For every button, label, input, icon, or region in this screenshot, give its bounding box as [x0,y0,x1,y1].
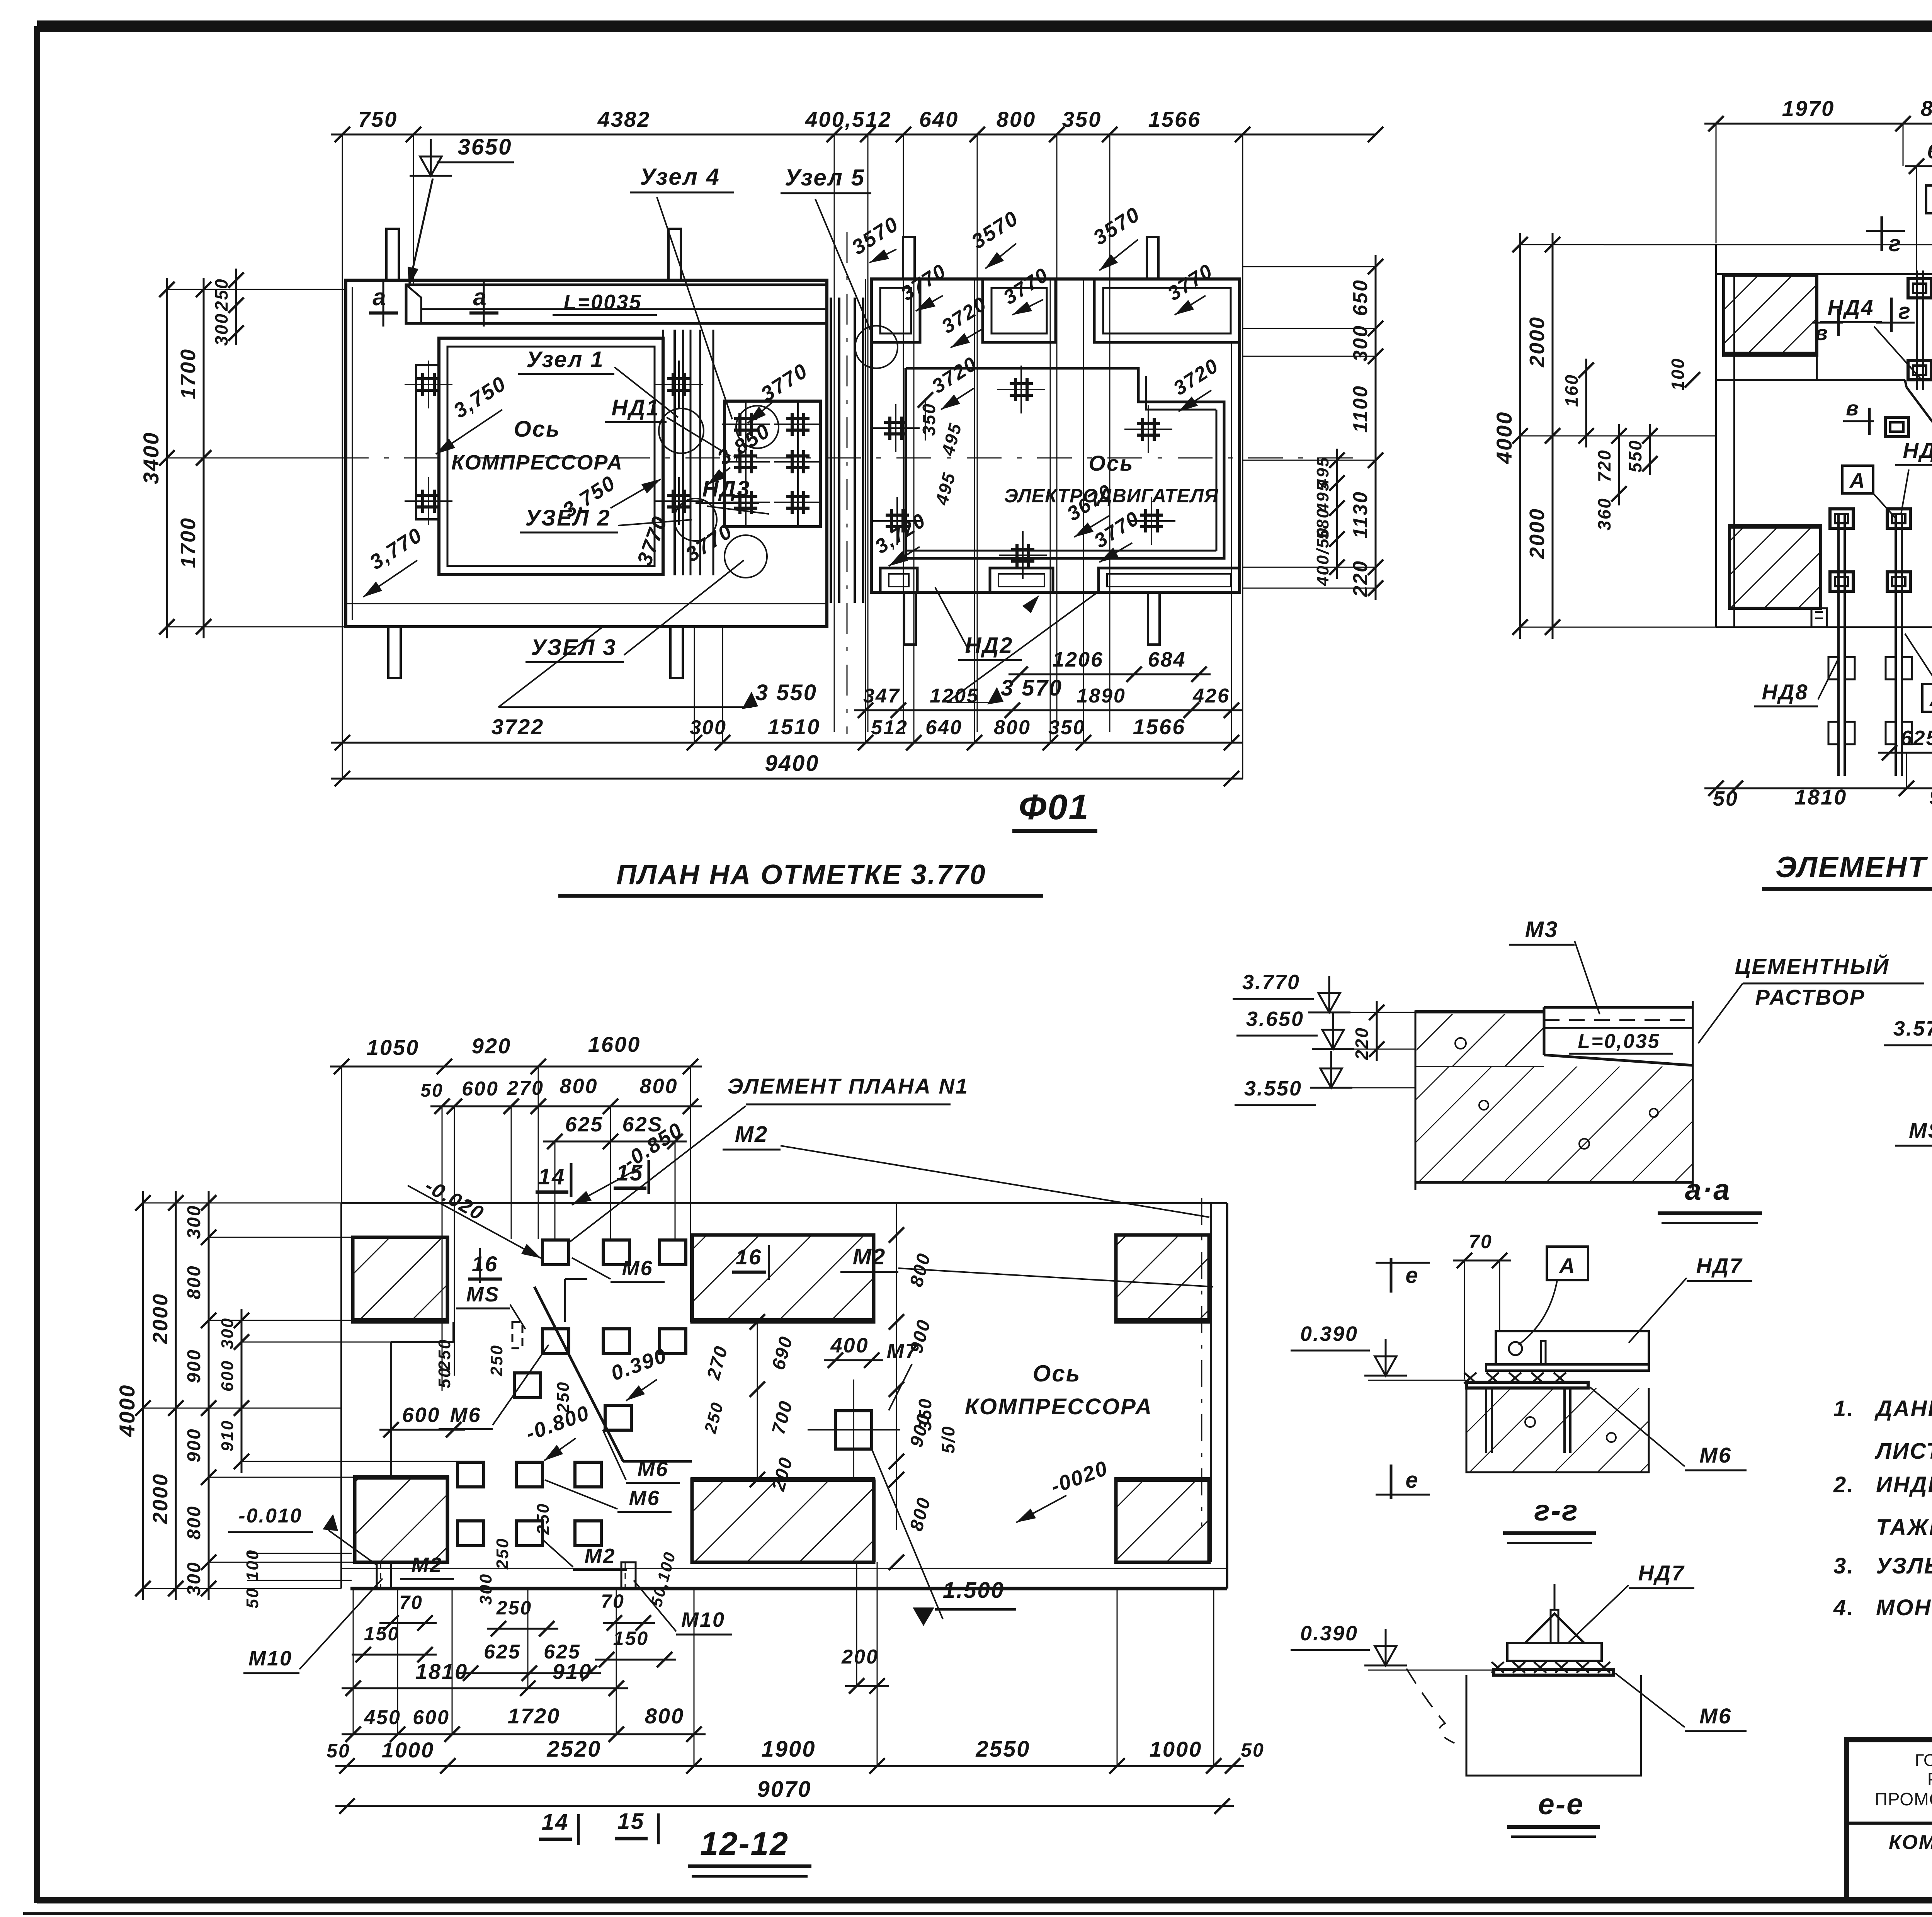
label Узел 2 with leader [520,505,692,532]
opening B right section [983,279,1056,342]
detail г-г: section mark е bottom [1376,1465,1430,1499]
svg-text:МS: МS [1909,1118,1932,1143]
plan outline left section [346,280,827,627]
note 2 [1833,1468,1932,1540]
svg-text:М2: М2 [411,1553,442,1577]
dim chain bottom: 347 1205 1890 426 [854,685,1243,718]
svg-text:300: 300 [211,313,231,346]
text Ось КОМПРЕССОРА [451,417,623,474]
svg-text:800: 800 [639,1075,678,1098]
svg-text:512: 512 [871,716,908,739]
dim chain left: 3400 / 1700 1700 / 250 300 [139,269,346,638]
detail a-a: section body [1415,1001,1693,1190]
12-12: level 1.500 with flag [872,1449,1016,1626]
svg-text:800: 800 [560,1075,598,1098]
title ЭЛЕМЕНТ ПЛАНА N1 [1762,851,1932,889]
12-12: dim 200 [841,1562,889,1766]
svg-text:a: a [372,284,387,311]
svg-text:1700: 1700 [177,517,200,568]
svg-text:900: 900 [184,1349,204,1383]
svg-text:350: 350 [1062,107,1102,131]
svg-text:М10: М10 [681,1608,725,1631]
label Узел 4 with leader [630,164,734,419]
right side strips of compressor block [655,330,713,575]
svg-text:250: 250 [493,1538,512,1570]
svg-text:910: 910 [553,1659,592,1684]
12-12: bottom chain 50 1000 2520 1900 2550 1000 50 [327,1589,1265,1774]
svg-text:9400: 9400 [765,751,819,776]
label Узел 3 with leader [526,560,744,662]
note 4 [1833,1595,1932,1620]
svg-text:600: 600 [218,1360,237,1391]
element plan: foundation step outline [1716,355,1932,494]
svg-text:1566: 1566 [1133,714,1186,739]
svg-text:100: 100 [1668,357,1688,391]
detail б-б: level 3.570 [1884,1017,1932,1070]
opening A right section [871,279,920,342]
svg-text:625: 625 [1900,726,1932,750]
svg-text:1206: 1206 [1053,648,1104,671]
svg-text:1970: 1970 [1782,96,1835,121]
element plan: в marks [1843,397,1874,435]
svg-text:УЗЛЫ 1÷5 ДАНЫ НА ЛИСТЕ КЖ: УЗЛЫ 1÷5 ДАНЫ НА ЛИСТЕ КЖ-34. [1876,1553,1932,1579]
element plan: labels НД4 НД7 НД5 НД6 [1820,295,1922,381]
svg-text:450: 450 [364,1706,401,1729]
detail е-е: gusset and plates [1406,1584,1641,1776]
svg-text:a: a [473,284,487,311]
detail г-г: dim 70 [1453,1231,1511,1379]
svg-text:РОСТОВСКИЙ: РОСТОВСКИЙ [1927,1769,1932,1789]
svg-text:12-12: 12-12 [700,1825,789,1862]
detail г-г: index А box [1519,1247,1588,1345]
element plan: upper rods НД7/НД5 [1917,270,1932,491]
svg-text:300: 300 [184,1561,204,1596]
svg-text:800: 800 [997,107,1036,131]
12-12: dim chain top3 625 625 [543,1106,687,1239]
label НД2 with leader [935,587,1022,660]
12-12: label М2 right lower [840,1244,1213,1287]
detail е-е: label НД7 [1569,1561,1694,1642]
svg-text:400,512: 400,512 [805,107,891,131]
anchors right section [872,366,1175,579]
svg-text:-0.010: -0.010 [238,1505,302,1527]
svg-text:14: 14 [542,1810,569,1835]
small dims 350 495 right section [918,392,966,507]
svg-text:3400: 3400 [139,432,163,485]
svg-text:Узел 5: Узел 5 [785,165,865,191]
detail г-г: label М6 [1590,1387,1747,1470]
axis line of plan [193,458,1368,459]
svg-text:800: 800 [994,716,1031,739]
svg-text:750: 750 [358,107,398,131]
svg-text:М6: М6 [1699,1704,1732,1728]
element plan: section mark г lower [1876,298,1915,332]
label НД3 with leader [696,476,769,514]
svg-text:400: 400 [830,1334,869,1357]
svg-text:910: 910 [1929,785,1932,809]
svg-text:70: 70 [1469,1231,1493,1252]
title block grid [1847,1740,1932,1900]
svg-text:800: 800 [184,1265,204,1299]
svg-text:2000: 2000 [149,1293,172,1344]
detail е-е: title [1507,1788,1600,1837]
detail г-г: level 0.390 [1291,1322,1466,1380]
note 3 [1833,1553,1932,1579]
svg-text:1.500: 1.500 [943,1578,1005,1603]
12-12: bottom chains 1810 910 / 450 600 1720 800 [342,1589,706,1766]
svg-text:ИНДЕКС: ИНДЕКС [1876,1472,1932,1497]
element plan: top boundary [1604,245,1932,627]
element plan: index A box bottom [1905,634,1932,712]
svg-text:600: 600 [402,1403,440,1427]
svg-text:14: 14 [538,1164,566,1189]
svg-text:А: А [1849,469,1866,492]
detail a-a: label ЦЕМЕНТНЫЙ РАСТВОР [1698,954,1924,1043]
12-12: outer boundary [341,1198,1227,1589]
title block: object [1889,1831,1932,1901]
svg-text:9070: 9070 [757,1777,811,1802]
svg-text:НД1: НД1 [611,395,660,420]
svg-text:1720: 1720 [508,1704,561,1728]
svg-text:50: 50 [243,1587,262,1609]
title 12-12 [688,1825,811,1876]
elevation labels 3.770/3.720 right section [897,260,951,311]
12-12: bottom stubs [377,1562,636,1589]
level label 3.650 with leader [408,134,514,287]
svg-text:250: 250 [435,1339,454,1371]
svg-text:495: 495 [1313,456,1332,488]
svg-text:НД6: НД6 [1903,438,1932,463]
svg-text:62S: 62S [1927,140,1932,163]
stubs above and below right section [903,237,1160,645]
svg-text:КОМПРЕССОРА: КОМПРЕССОРА [451,451,623,474]
svg-text:А: А [1929,687,1932,711]
12-12: hatched pier bottom-right [1114,1480,1211,1562]
12-12: level -0.010 left [228,1505,377,1565]
svg-text:2520: 2520 [546,1737,601,1762]
svg-text:НД3: НД3 [702,476,750,502]
svg-text:НД8: НД8 [1762,680,1808,704]
svg-text:300: 300 [476,1573,495,1605]
12-12: hatched pier top-center [690,1235,875,1322]
12-12: hatched pier bottom-center [690,1480,875,1562]
middle gap double strips [831,232,863,734]
svg-text:М3: М3 [1525,917,1559,942]
12-12: labels М5 М6 М2 [456,1283,526,1329]
svg-text:625: 625 [565,1113,603,1136]
svg-text:1510: 1510 [768,714,821,739]
svg-text:3722: 3722 [492,714,544,739]
svg-text:600: 600 [413,1706,450,1729]
element plan: lower rods [1828,513,1932,776]
svg-text:3.770: 3.770 [1242,971,1300,994]
12-12: left dim chains [115,1191,457,1600]
svg-text:2550: 2550 [975,1737,1030,1762]
svg-text:е: е [1405,1263,1419,1288]
svg-text:Ось: Ось [514,417,561,442]
12-12: pads bottom rows [457,1462,601,1546]
svg-text:1205: 1205 [930,685,979,707]
svg-text:1810: 1810 [415,1659,468,1684]
stub posts below left section [388,627,683,678]
svg-text:50: 50 [1713,787,1738,810]
bottom plinths right section [880,568,1240,592]
svg-text:4000: 4000 [115,1384,139,1437]
svg-text:Узел 4: Узел 4 [640,164,720,190]
element plan: hatched pier bottom-left [1728,526,1822,608]
12-12: section marks 14 15 bottom [539,1809,658,1845]
svg-text:4.: 4. [1833,1595,1854,1620]
element plan: bottom dims 625 625 / 50 1810 910 [1704,726,1932,810]
label НД1 with leader [605,395,730,456]
svg-text:а·а: а·а [1685,1174,1731,1206]
12-12: level 0.390 center [608,1344,670,1401]
plan outline right section [871,279,1240,592]
svg-text:А: А [1558,1254,1576,1278]
12-12: level -0.850 arrow [572,1118,687,1205]
svg-text:КОМПРЕССОРА: КОМПРЕССОРА [965,1394,1153,1419]
detail a-a: label М3 [1509,917,1600,1014]
svg-text:ДАННЫЙ ЛИСТ РАССМАТРИВАТЬ С: ДАННЫЙ ЛИСТ РАССМАТРИВАТЬ СОВМЕСТНО С [1874,1396,1932,1421]
detail a-a: levels 3.770 3.650 3.550 [1233,971,1416,1105]
element plan: index A box mid [1842,466,1895,518]
svg-text:50: 50 [420,1080,443,1101]
svg-text:1900: 1900 [761,1737,816,1762]
title block: org name [1875,1750,1932,1826]
svg-text:220: 220 [1352,1027,1372,1060]
12-12: level -0.800 center [523,1401,593,1461]
svg-text:0.390: 0.390 [1300,1322,1358,1345]
svg-text:е: е [1405,1468,1419,1493]
title Ф01 ПЛАН НА ОТМЕТКЕ 3.770 [558,788,1097,896]
svg-text:300: 300 [218,1317,237,1349]
svg-text:1050: 1050 [367,1035,420,1060]
level 3.570 bottom [947,592,1097,704]
12-12: section marks 16 [468,1245,769,1283]
svg-text:L=0035: L=0035 [564,291,642,314]
element plan: section mark г top [1866,216,1905,256]
svg-text:3650: 3650 [457,134,512,160]
12-12: hatched pier top-left [351,1237,449,1322]
svg-text:в: в [1815,321,1829,345]
detail г-г: title [1503,1494,1596,1543]
svg-text:600: 600 [462,1078,499,1100]
svg-text:3 570: 3 570 [1001,675,1063,701]
svg-text:640: 640 [919,107,959,131]
element plan: index A box top [1926,185,1932,286]
svg-text:150: 150 [613,1628,649,1649]
svg-text:М6: М6 [1699,1443,1732,1467]
12-12: label М2 top right with long leader [723,1122,1209,1217]
svg-text:L=0,035: L=0,035 [1578,1030,1660,1053]
svg-text:НД7: НД7 [1638,1561,1685,1585]
dim chain bottom small: 1206 684 [1009,648,1211,682]
svg-text:360: 360 [1594,497,1614,531]
svg-text:М6: М6 [637,1458,668,1481]
svg-text:800: 800 [184,1505,204,1539]
svg-text:720: 720 [1594,449,1614,482]
opening C right section [1094,279,1240,342]
element plan: labels НД8 [1754,657,1839,706]
12-12: pit outline with diagonal [391,1279,692,1480]
svg-text:3.550: 3.550 [1244,1077,1302,1100]
svg-text:347: 347 [863,685,900,707]
svg-text:НД2: НД2 [965,633,1013,658]
svg-text:625: 625 [484,1641,521,1663]
elevation labels 3.570 row [847,212,903,263]
note 1 [1833,1396,1932,1464]
label Узел 5 with leader and detail circle [781,165,898,368]
svg-text:4000: 4000 [1492,411,1516,464]
svg-text:Ось: Ось [1089,451,1134,475]
svg-text:0.390: 0.390 [1300,1622,1358,1645]
12-12: hatched pier top-right [1114,1235,1211,1322]
svg-text:200: 200 [841,1646,879,1668]
section marks a-a on beam [369,280,498,327]
svg-text:2.: 2. [1833,1472,1854,1497]
inner room right section [906,368,1224,558]
svg-text:3.650: 3.650 [1246,1007,1304,1031]
dim chain bottom main: 3722 300 1510 512 640 800 350 1566 [331,279,1243,750]
svg-text:300: 300 [184,1204,204,1239]
12-12: level -0020 right [1016,1456,1111,1522]
svg-text:1700: 1700 [177,348,200,399]
svg-text:2000: 2000 [149,1473,172,1524]
detail е-е: level 0.390 [1291,1622,1494,1670]
12-12: label ЭЛЕМЕНТ ПЛАНА N1 with leader [549,1074,969,1258]
svg-text:М2: М2 [735,1122,769,1147]
svg-text:900: 900 [184,1428,204,1462]
svg-text:150: 150 [364,1623,400,1645]
label Узел 1 with leader [518,347,678,417]
svg-text:15: 15 [617,1809,645,1834]
svg-text:в: в [1846,397,1860,420]
svg-text:1000: 1000 [1150,1737,1202,1761]
text Ось ЭЛЕКТРОДВИГАТЕЛЯ [1004,451,1219,507]
svg-text:250: 250 [554,1381,573,1413]
detail г-г: section mark е top [1376,1258,1430,1293]
connection plate НД1/НД3 with anchors [722,400,822,527]
svg-text:1566: 1566 [1148,107,1201,131]
svg-text:ТАЖЕ.: ТАЖЕ. [1876,1515,1932,1540]
12-12: room Ось КОМПРЕССОРА [965,1361,1153,1419]
detail б-б: label М5 [1895,1094,1932,1146]
svg-text:800: 800 [645,1704,684,1728]
svg-text:ЭЛЕМЕНТ ПЛАНА N1: ЭЛЕМЕНТ ПЛАНА N1 [728,1074,969,1098]
element plan: bottom boundary and connectors [1716,608,1932,627]
12-12: small rot dims left center [435,1339,573,1570]
svg-text:16: 16 [736,1245,762,1269]
svg-text:550: 550 [1625,439,1645,473]
svg-text:ГОССТРОЙ СССР: ГОССТРОЙ СССР [1915,1750,1932,1770]
12-12: chain 9070 [335,1777,1234,1814]
svg-text:НД4: НД4 [1827,295,1874,320]
detail г-г: beam and base [1464,1331,1649,1472]
svg-text:1810: 1810 [1794,785,1847,809]
svg-text:1.: 1. [1833,1396,1854,1421]
element plan: dim chain top 1970 800 800 [1704,96,1932,247]
svg-text:ПРОМСТРОЙНИИПРОЕКТ: ПРОМСТРОЙНИИПРОЕКТ [1875,1789,1932,1809]
svg-text:М6: М6 [622,1257,653,1280]
svg-text:684: 684 [1148,648,1186,671]
detail е-е: label М6 [1615,1673,1747,1731]
dim chain right: 650 300 1100 1130 220 [1242,255,1383,600]
svg-text:е-е: е-е [1538,1788,1584,1821]
12-12: right rotated dims 800 900 690 270 700 200 900 800 [701,1203,935,1570]
dim chain 9400 [331,751,1243,786]
svg-text:3.: 3. [1833,1553,1854,1579]
svg-text:426: 426 [1192,685,1230,707]
dim chain top: 750 4382 400 512 640 800 350 1566 [331,107,1383,779]
svg-text:70: 70 [601,1590,625,1612]
svg-text:1600: 1600 [588,1032,641,1056]
element plan: left dim chains 4000 2000 2000 [1492,233,1716,639]
svg-text:УЗЕЛ 3: УЗЕЛ 3 [531,635,616,660]
left pier with anchors [405,361,452,525]
svg-text:350: 350 [919,403,939,436]
12-12: dim chain top2 50 600 270 800 800 [420,1067,702,1391]
detail circles узел 1-4 [659,406,779,578]
svg-text:г: г [1898,299,1912,324]
label 3770 upper [748,359,812,423]
svg-text:М2: М2 [584,1544,616,1568]
svg-text:ПЛАН НА ОТМЕТКЕ 3.770: ПЛАН НА ОТМЕТКЕ 3.770 [616,859,986,890]
svg-text:640: 640 [925,716,963,739]
element plan: anchor bolts rows [1830,279,1932,591]
12-12: bottom dims row 70 150 250 625 625 70 150 [243,1549,732,1681]
element plan: hatched pier top-left [1724,275,1818,355]
svg-text:250: 250 [487,1344,506,1376]
stub posts above beam [386,229,681,280]
svg-text:650: 650 [1349,279,1372,316]
top beam with slope L=0035 [406,285,827,323]
svg-text:г-г: г-г [1534,1494,1578,1527]
svg-text:Ф01: Ф01 [1019,788,1089,827]
svg-text:1100: 1100 [1349,385,1372,433]
svg-text:160: 160 [1561,374,1582,407]
svg-text:НД7: НД7 [1696,1254,1743,1278]
svg-text:1000: 1000 [382,1738,435,1762]
svg-text:50: 50 [1241,1739,1265,1761]
svg-text:220: 220 [1349,560,1372,597]
svg-text:350: 350 [1048,716,1085,739]
svg-text:5/0: 5/0 [938,1425,958,1454]
svg-text:МS: МS [466,1283,500,1306]
svg-text:800: 800 [1921,96,1932,121]
detail г-г: label НД7 [1629,1254,1752,1343]
detail a-a: title [1658,1174,1762,1223]
svg-text:РАСТВОР: РАСТВОР [1755,985,1866,1009]
svg-text:ЛИСТАМИ КЖ-31÷КЖ-34.: ЛИСТАМИ КЖ-31÷КЖ-34. [1874,1439,1932,1464]
12-12: level -0.020 top arrow [408,1175,541,1258]
svg-text:М10: М10 [248,1647,293,1670]
svg-text:1130: 1130 [1349,491,1372,539]
12-12: pads top rows [514,1240,686,1430]
svg-text:Ось: Ось [1033,1361,1081,1386]
svg-text:3 550: 3 550 [755,680,817,705]
svg-text:г: г [1889,231,1902,256]
svg-text:3.570: 3.570 [1893,1017,1932,1040]
element plan: dim chain 625 625 [1905,140,1932,286]
element plan: small left dims 160 720 550 360 100 [1561,357,1700,531]
svg-text:Узел 1: Узел 1 [526,347,604,372]
12-12: dim chain top 1050 920 1600 [330,1032,702,1203]
svg-text:70: 70 [399,1592,423,1613]
svg-text:МОНТАЖНЫЙ ШОВ РАВЕН hш =6мм: МОНТАЖНЫЙ ШОВ РАВЕН hш =6мм. [1876,1595,1932,1620]
inner equipment block (compressor) [439,338,663,575]
level 3.550 bottom [498,627,817,709]
12-12: dim 600 center [379,1403,465,1437]
